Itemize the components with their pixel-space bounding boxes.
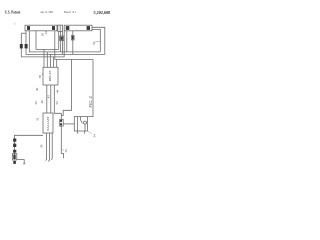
wire: terminal block drop 3 through starter <box>61 32 63 55</box>
wire: ballast output 2 with hook <box>48 133 49 161</box>
capacitor C1 on lamp 28 drop <box>72 35 75 40</box>
wire: terminal block drop 2 <box>60 32 62 52</box>
lamp 26 left cathode block <box>27 26 30 30</box>
relay top entry wire 5 <box>56 59 58 67</box>
relay top entry wire 3 <box>50 54 52 67</box>
wire: bus to changeover, long vertical x93 <box>87 59 93 116</box>
wire: lamp 26 right cathode drop to lowest bus <box>55 31 93 60</box>
svg-text:38: 38 <box>38 75 42 79</box>
wire: power source output <box>17 160 24 164</box>
wire: test box to breaker chain <box>63 123 74 125</box>
relay K1 box <box>43 67 58 85</box>
svg-text:52: 52 <box>36 117 40 121</box>
svg-text:BALLAST: BALLAST <box>46 117 50 131</box>
wire: left rail from lamp 26 left end down <box>26 31 105 55</box>
wire: terminal block drop 1 <box>58 32 60 50</box>
svg-text:50: 50 <box>92 41 96 45</box>
wire: stub to outer left rail <box>21 32 26 34</box>
relay top entry wire 2 <box>46 52 48 67</box>
leader for label 38 <box>42 73 43 75</box>
wire: lamp 28 left cathode drop <box>66 31 68 52</box>
breaker CB1 <box>60 119 64 126</box>
fluorescent lamp 26 (left tube) <box>25 25 57 31</box>
wire: bus feed to breaker right terminal <box>61 59 71 115</box>
relay top entry wire 4 <box>53 57 55 67</box>
ballast B1 box <box>43 113 53 133</box>
svg-text:RELAY: RELAY <box>48 70 52 82</box>
lamp 26 right cathode block <box>52 26 55 30</box>
lamp 28 right cathode block <box>87 26 90 30</box>
svg-text:Sheet 1 of 1: Sheet 1 of 1 <box>64 10 77 14</box>
switch blade inside test box <box>80 117 82 120</box>
relay top entry wire 1 <box>43 49 45 67</box>
wire: lamp 28 second drop through capacitor <box>72 31 74 55</box>
fluorescent lamp 28 (right tube) <box>64 25 92 31</box>
svg-text:34: 34 <box>44 31 48 35</box>
power source box <box>12 154 16 160</box>
inner contact line inside test box <box>76 117 78 134</box>
wire: relay to ballast drop 1 <box>46 85 48 113</box>
wire: ballast output 3 with hook <box>51 133 52 160</box>
leader for label 54 <box>87 131 92 134</box>
wire: second left drop from lamp 26 <box>29 31 100 52</box>
svg-text:FIG. 4: FIG. 4 <box>88 96 93 108</box>
svg-text:5,202,608: 5,202,608 <box>94 10 111 15</box>
svg-text:56: 56 <box>64 149 68 153</box>
svg-text:62: 62 <box>55 101 59 105</box>
lamp 28 left cathode block <box>66 26 70 30</box>
svg-text:44: 44 <box>55 89 59 93</box>
leader for label 50 <box>95 40 100 43</box>
wire: relay to ballast drop 2 <box>50 85 52 113</box>
indicator lamp circle inside test box <box>84 121 87 124</box>
wire: lamp 28 right end to inner right rail <box>92 29 100 52</box>
test switch box <box>74 117 87 131</box>
wire: ballast output 1 with hook <box>46 133 47 161</box>
svg-text:48: 48 <box>40 100 44 104</box>
leader for label 56 <box>61 149 64 151</box>
connector block on outer left rail <box>20 44 23 48</box>
starter S1 on drop 3 <box>60 36 64 41</box>
svg-text:46: 46 <box>34 101 38 105</box>
svg-text:42: 42 <box>47 95 51 99</box>
wire: drop from lamp 26 bottom at x36 <box>36 31 59 50</box>
fuse block F1 on power lead <box>13 144 16 147</box>
svg-text:58: 58 <box>40 144 44 148</box>
switch block S2 on power lead <box>13 150 16 153</box>
wire: ballast to power source <box>14 135 43 159</box>
wire: outer left rail <box>21 33 64 57</box>
svg-text:40: 40 <box>35 87 39 91</box>
wire: breaker down lead <box>61 126 63 158</box>
svg-text:U.S. Patent: U.S. Patent <box>5 10 21 15</box>
connector block on inner left rail <box>25 44 28 48</box>
bottom stub under test box <box>83 131 85 134</box>
lampholder terminal block between tubes <box>58 25 63 31</box>
wire: lamp 28 right end to outer right rail <box>92 27 105 54</box>
wire: terminal block drop 4 <box>63 31 65 57</box>
ground stub under power source <box>13 161 16 164</box>
svg-text:54: 54 <box>93 134 97 138</box>
plug block P1 on power lead <box>13 139 16 142</box>
wire: relay third drop to test switch chain <box>54 85 61 119</box>
